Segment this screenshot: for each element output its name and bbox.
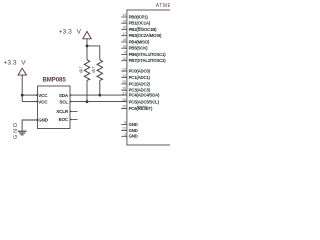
wire GND of U2 to ground	[22, 120, 37, 131]
wire VCC2 branch	[22, 101, 37, 103]
svg-text:PB6(XTAL1/TOSC1): PB6(XTAL1/TOSC1)	[129, 52, 167, 57]
svg-text:9: 9	[124, 51, 126, 55]
svg-text:19: 19	[122, 44, 126, 48]
svg-text:22: 22	[122, 127, 126, 131]
pin 26 PC3 stub	[121, 89, 127, 91]
svg-text:SCL: SCL	[59, 99, 68, 104]
svg-text:GND: GND	[38, 118, 49, 123]
svg-text:PB7(XTAL2/TOSC2): PB7(XTAL2/TOSC2)	[129, 58, 167, 63]
pin PC6 label with RESET overline	[129, 106, 153, 111]
svg-text:14: 14	[122, 13, 126, 17]
pin 29 PC6 stub	[121, 107, 127, 109]
pin 14 PB0 stub	[121, 16, 127, 18]
svg-text:PC0(ADC0): PC0(ADC0)	[129, 69, 151, 74]
svg-text:GND: GND	[129, 122, 138, 127]
svg-text:4k7: 4k7	[91, 66, 96, 73]
wire SCL net	[71, 101, 127, 103]
svg-text:VCC: VCC	[38, 99, 48, 104]
pin SCL of U2	[59, 99, 71, 104]
pin 19 PB5 stub	[121, 47, 127, 49]
resistor R2	[97, 60, 102, 81]
svg-text:25: 25	[122, 80, 126, 84]
svg-text:15: 15	[122, 19, 126, 23]
pin 17 PB3 stub	[121, 35, 127, 37]
IC U2 BMP085 box	[38, 86, 71, 129]
pin 24 PC1 stub	[121, 77, 127, 79]
ground symbol	[18, 131, 27, 135]
pin SDA of U2	[59, 93, 72, 98]
svg-text:24: 24	[122, 74, 126, 78]
IC U1 ATMEGA box	[127, 10, 173, 145]
svg-text:PB4(MISO): PB4(MISO)	[129, 39, 150, 44]
pin VCC2 of U2	[36, 99, 48, 104]
pin VCC1 of U2	[36, 93, 48, 98]
svg-text:23: 23	[122, 67, 126, 71]
pin 8 GND stub	[121, 123, 127, 125]
svg-text:V: V	[21, 59, 26, 66]
pin GND of U2	[36, 118, 49, 123]
svg-text:10: 10	[122, 57, 126, 61]
svg-text:V: V	[77, 29, 82, 36]
supply symbol +3.3V left	[4, 59, 27, 75]
svg-text:PC2(ADC2): PC2(ADC2)	[129, 81, 151, 86]
wire +3.3V rail left	[21, 75, 23, 102]
svg-text:GND: GND	[13, 121, 19, 139]
pin EOC of U2	[59, 117, 78, 122]
svg-text:PB5(SCK): PB5(SCK)	[129, 46, 149, 51]
pin 25 PC2 stub	[121, 83, 127, 85]
wire top branch to R2	[87, 46, 100, 60]
svg-text:4k7: 4k7	[78, 66, 83, 73]
svg-text:+3.3: +3.3	[4, 59, 17, 66]
svg-text:PB2(SS/OC1B): PB2(SS/OC1B)	[129, 27, 158, 32]
junction R1 on SCL wire	[86, 100, 89, 103]
wire SDA net	[71, 94, 127, 96]
pin 16 PB2 stub	[121, 29, 127, 31]
svg-text:GND: GND	[129, 128, 138, 133]
svg-text:16: 16	[122, 26, 126, 30]
pin 27 PC4 stub	[121, 94, 127, 96]
svg-text:VCC: VCC	[38, 93, 48, 98]
svg-text:PC1(ADC1): PC1(ADC1)	[129, 75, 151, 80]
wire VCC1 branch	[22, 94, 37, 96]
pin PB2 label with SS overline	[129, 27, 158, 32]
svg-text:ATMEGA8: ATMEGA8	[156, 3, 170, 9]
svg-text:+3.3: +3.3	[59, 29, 72, 36]
wire from middle supply to resistors	[86, 39, 88, 60]
svg-text:PB0(ICP1): PB0(ICP1)	[129, 14, 149, 19]
svg-text:26: 26	[122, 86, 126, 90]
svg-text:8: 8	[124, 121, 126, 125]
pin 10 PB7 stub	[121, 60, 127, 62]
svg-text:EOC: EOC	[59, 117, 69, 122]
junction at supply branch	[86, 45, 89, 48]
supply symbol +3.3V middle	[59, 29, 91, 39]
svg-text:SDA: SDA	[59, 93, 69, 98]
svg-text:PC5(ADC5/SCL): PC5(ADC5/SCL)	[129, 100, 160, 105]
svg-text:18: 18	[122, 38, 126, 42]
pin XCLR of U2	[56, 109, 77, 114]
pin 9 PB6 stub	[121, 54, 127, 56]
svg-text:PB3(OC2A/MOSI): PB3(OC2A/MOSI)	[129, 33, 162, 38]
pin 15 PB1 stub	[121, 22, 127, 24]
pin 18 PB4 stub	[121, 41, 127, 43]
pin 22 GND stub	[121, 129, 127, 131]
wire R1 bottom to SCL net	[86, 80, 88, 101]
svg-text:XCLR: XCLR	[56, 109, 69, 114]
svg-text:GND: GND	[129, 134, 138, 139]
junction on rail at VCC1	[21, 94, 24, 97]
pin 28 PC5 stub	[121, 101, 127, 103]
pin 23 PC0 stub	[121, 70, 127, 72]
resistor R1	[84, 60, 89, 81]
svg-text:17: 17	[122, 32, 126, 36]
svg-text:29: 29	[122, 105, 126, 109]
svg-text:3: 3	[124, 133, 126, 137]
svg-text:PB1(OC1A): PB1(OC1A)	[129, 21, 151, 26]
svg-text:PC4(ADC4/SDA): PC4(ADC4/SDA)	[129, 93, 160, 98]
wire R2 bottom to SDA net	[99, 80, 101, 95]
pin 3 GND stub	[121, 135, 127, 137]
junction R2 on SDA wire	[98, 94, 101, 97]
svg-text:BMP085: BMP085	[43, 76, 67, 83]
